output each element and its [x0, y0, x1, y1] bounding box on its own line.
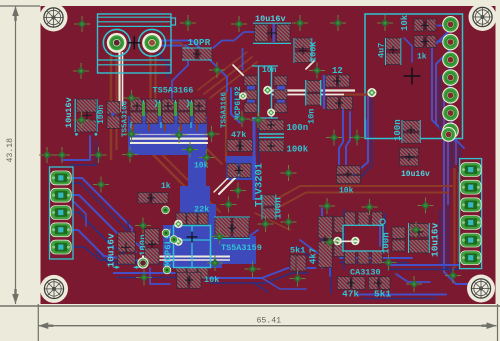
svg-text:10k: 10k — [204, 275, 219, 285]
svg-text:47k: 47k — [231, 130, 246, 140]
svg-text:TS5A3166: TS5A3166 — [153, 86, 194, 96]
svg-text:100n: 100n — [287, 123, 309, 133]
svg-text:10u16v: 10u16v — [64, 97, 74, 128]
svg-text:CA3130: CA3130 — [350, 268, 381, 278]
svg-text:10u16v: 10u16v — [106, 233, 117, 268]
svg-text:TLV3201: TLV3201 — [254, 163, 266, 207]
svg-text:TS5A3166: TS5A3166 — [221, 91, 229, 128]
svg-text:1k: 1k — [417, 53, 427, 62]
svg-text:TS5A3159: TS5A3159 — [221, 243, 262, 253]
svg-text:5k1: 5k1 — [290, 246, 305, 256]
svg-text:4k7: 4k7 — [309, 248, 319, 264]
svg-text:100K: 100K — [309, 41, 319, 62]
svg-text:100n: 100n — [97, 105, 106, 124]
svg-text:43.18: 43.18 — [6, 138, 15, 163]
svg-text:10k: 10k — [400, 14, 410, 31]
svg-text:10u16v: 10u16v — [255, 14, 286, 24]
svg-text:10n: 10n — [262, 66, 277, 75]
svg-text:10n: 10n — [307, 109, 317, 124]
svg-text:10k: 10k — [339, 187, 354, 196]
svg-text:TS5A3166: TS5A3166 — [122, 100, 130, 137]
svg-text:100k: 100k — [287, 145, 309, 155]
svg-text:5k1: 5k1 — [374, 289, 391, 300]
svg-text:47k: 47k — [342, 289, 359, 300]
svg-text:1k: 1k — [161, 182, 171, 191]
svg-text:100n: 100n — [382, 232, 392, 254]
svg-text:12: 12 — [332, 66, 343, 76]
svg-text:10u16v: 10u16v — [430, 222, 441, 257]
svg-text:65.41: 65.41 — [257, 317, 282, 326]
svg-text:10PR: 10PR — [188, 37, 211, 48]
svg-text:10u16v: 10u16v — [401, 170, 430, 179]
